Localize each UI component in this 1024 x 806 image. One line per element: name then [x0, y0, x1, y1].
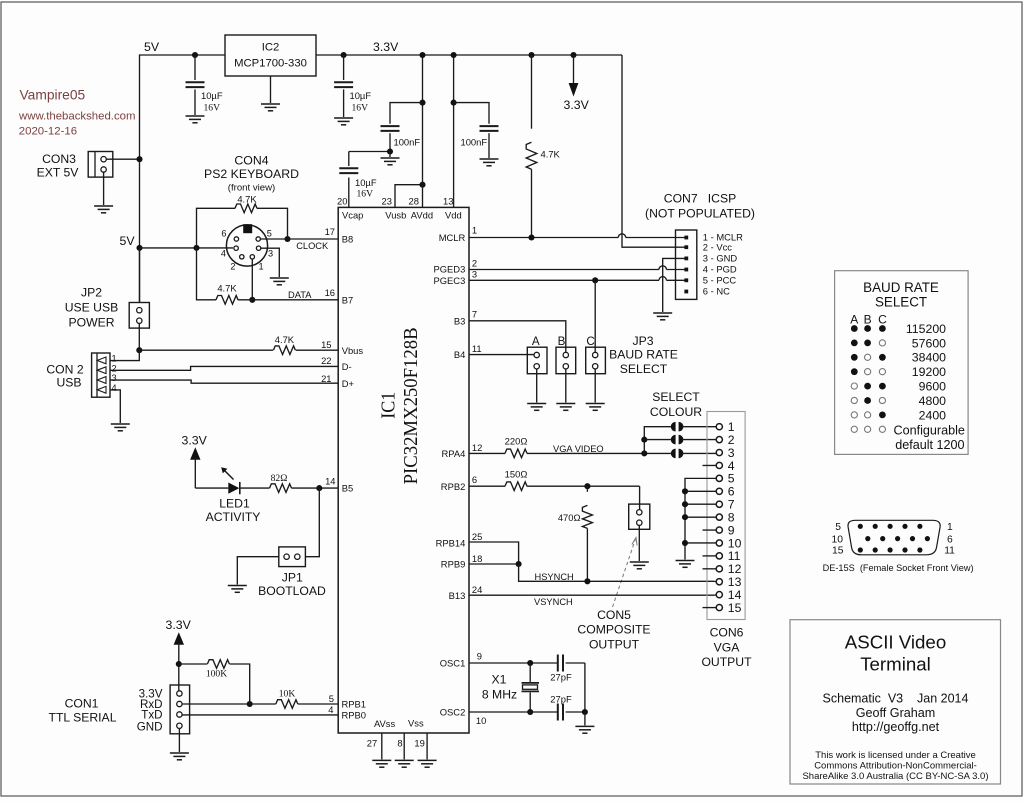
svg-text:PGEC3: PGEC3	[434, 275, 466, 286]
resistor R2 4.7K data pullup	[216, 296, 238, 305]
svg-text:10µF: 10µF	[355, 177, 377, 188]
svg-text:10µF: 10µF	[350, 90, 372, 101]
wire IC2 output to 3.3V rail	[316, 54, 622, 56]
svg-text:RPB9: RPB9	[441, 559, 466, 570]
wire Vbus to resistor	[139, 349, 273, 351]
svg-text:B5: B5	[342, 483, 353, 494]
junction on 5V rail	[192, 52, 198, 58]
wire CON3 pin2 to ground	[103, 172, 105, 205]
jumper C	[586, 347, 606, 374]
svg-text:11: 11	[944, 545, 955, 556]
svg-text:CON7 ICSP: CON7 ICSP	[664, 192, 736, 206]
ground for DIN pin3	[270, 278, 289, 285]
wire OSC2 to cap	[469, 711, 557, 713]
resistor R10 470R	[582, 486, 592, 581]
dashed callout arrow CON5	[613, 538, 638, 608]
svg-text:3.3V: 3.3V	[166, 618, 192, 632]
svg-text:(NOT POPULATED): (NOT POPULATED)	[645, 207, 755, 221]
wire R5 to RxD line	[230, 664, 250, 704]
ground for C2	[334, 118, 353, 125]
CON6 stub pins	[703, 465, 717, 607]
label HSYNCH	[535, 572, 574, 582]
svg-text:4: 4	[221, 249, 226, 259]
ground for CON2	[111, 424, 130, 431]
resistor R1 4.7K clock pullup	[235, 204, 257, 213]
svg-text:2: 2	[472, 258, 477, 269]
svg-text:B7: B7	[342, 294, 353, 305]
solder jumper blue	[671, 449, 684, 459]
svg-text:A: A	[532, 335, 540, 348]
svg-text:10µF: 10µF	[201, 90, 223, 101]
svg-text:4.7K: 4.7K	[275, 334, 295, 345]
svg-text:Schematic V3 Jan 2014: Schematic V3 Jan 2014	[823, 691, 969, 705]
wire LED to resistor	[240, 487, 270, 489]
svg-text:4800: 4800	[919, 394, 947, 408]
junction CLOCK	[284, 236, 290, 242]
svg-text:100K: 100K	[206, 669, 227, 680]
jumper A	[527, 347, 547, 374]
connector CON1 box	[170, 685, 190, 734]
wire RPB9	[469, 563, 519, 565]
DE-15S pin dots	[858, 524, 930, 553]
svg-text:Vdd: Vdd	[445, 209, 462, 220]
connector CON4 PS2 DIN socket	[226, 224, 267, 266]
svg-text:default 1200: default 1200	[895, 438, 964, 452]
table header A B C	[850, 313, 887, 327]
label R7 4.7K	[541, 148, 561, 159]
wire DIN pin3 to ground	[261, 248, 280, 277]
svg-text:16V: 16V	[357, 189, 374, 200]
note Vampire05	[20, 87, 86, 102]
junction video pin3	[641, 450, 647, 456]
svg-text:OUTPUT: OUTPUT	[701, 655, 752, 669]
wire jumper B to ground	[556, 369, 575, 410]
svg-text:OUTPUT: OUTPUT	[589, 637, 640, 651]
svg-text:25: 25	[472, 531, 482, 542]
jumper B	[556, 347, 576, 374]
wire C4 to ground	[389, 152, 391, 158]
wire pullup left branch	[197, 208, 236, 248]
svg-text:HSYNCH: HSYNCH	[535, 572, 574, 582]
title schematic version	[823, 691, 969, 705]
svg-text:Geoff Graham: Geoff Graham	[856, 706, 936, 720]
wire 5V rail to IC2	[140, 55, 226, 302]
pin 13 Vdd line to rail	[443, 55, 462, 220]
svg-text:3.3V: 3.3V	[564, 98, 590, 112]
svg-text:SELECT: SELECT	[652, 390, 700, 404]
wire CON6 pin13 stub	[715, 580, 717, 582]
wire VGA VIDEO line	[527, 452, 671, 454]
svg-text:21: 21	[321, 373, 331, 384]
junction B5 node	[316, 485, 322, 491]
svg-text:4 - PGD: 4 - PGD	[703, 264, 737, 275]
pin 23 Vusb stem	[382, 185, 423, 221]
wire DATA to IC pin16	[238, 299, 338, 301]
wire jumper A to ground	[527, 369, 546, 410]
capacitor C5 100nF Vdd	[454, 103, 499, 158]
svg-text:19: 19	[414, 738, 424, 749]
svg-text:3 - GND: 3 - GND	[703, 253, 738, 264]
wire R1 to CLOCK corner	[257, 208, 288, 236]
svg-text:100nF: 100nF	[461, 137, 488, 148]
svg-text:VGA VIDEO: VGA VIDEO	[553, 444, 604, 454]
svg-text:LED1: LED1	[219, 497, 250, 511]
svg-text:7: 7	[472, 308, 477, 319]
CON7 pin name list	[703, 232, 743, 297]
power arrow 3.3V right	[564, 55, 590, 112]
svg-text:2: 2	[728, 433, 735, 447]
svg-text:6 - NC: 6 - NC	[703, 286, 730, 297]
svg-text:11: 11	[472, 343, 482, 354]
junction 3.3V arrow rail	[570, 52, 576, 58]
table option dots	[851, 325, 886, 432]
baud rate select table box	[835, 271, 969, 455]
ground for C5	[480, 159, 499, 166]
label C4 100nF	[394, 137, 421, 148]
svg-text:4.7K: 4.7K	[541, 148, 561, 159]
junction HSYNCH 470R	[584, 578, 590, 584]
DIN pin number labels	[221, 229, 273, 272]
junction video pin2	[641, 437, 647, 443]
label R5 100K	[206, 669, 227, 680]
label VGA VIDEO	[553, 444, 604, 454]
svg-text:2400: 2400	[919, 408, 947, 422]
svg-text:27: 27	[367, 738, 377, 749]
IC right pin numbers	[472, 225, 486, 727]
wire jumper C to PGEC3	[594, 280, 596, 352]
label CON1 TTL SERIAL	[49, 697, 117, 725]
svg-text:1: 1	[472, 225, 477, 236]
junction caps ground	[582, 709, 588, 715]
pin 20 Vcap stem	[337, 178, 363, 221]
junction 470R top	[584, 483, 590, 489]
label CON5 COMPOSITE OUTPUT	[577, 608, 650, 651]
svg-text:BAUD RATE: BAUD RATE	[863, 280, 939, 295]
wire video branch up to pin1	[644, 427, 671, 454]
label C5 100nF	[461, 137, 488, 148]
wire jumper C to ground	[586, 369, 605, 410]
license text	[802, 750, 988, 782]
svg-text:RPA4: RPA4	[442, 448, 466, 459]
label CON3	[37, 152, 80, 180]
svg-text:C: C	[586, 335, 594, 348]
svg-text:20: 20	[337, 196, 347, 207]
wire video branch pin2	[644, 439, 671, 441]
svg-text:1: 1	[947, 522, 953, 533]
connector CON2 USB	[92, 353, 110, 397]
title author	[856, 706, 936, 720]
junction 4.7K rail	[528, 52, 534, 58]
svg-text:USB: USB	[56, 376, 81, 390]
DE-15S connector outline	[848, 520, 940, 555]
svg-text:DATA: DATA	[288, 290, 312, 300]
power arrow 3.3V CON1	[166, 618, 192, 691]
svg-text:Commons Attribution-NonCommerc: Commons Attribution-NonCommercial-	[814, 761, 977, 772]
svg-text:8 MHz: 8 MHz	[482, 688, 517, 702]
junction 5V node PS2	[136, 245, 142, 251]
wire jumper blue to pin3	[682, 452, 716, 454]
svg-text:2: 2	[230, 261, 235, 271]
svg-text:Terminal: Terminal	[860, 653, 931, 674]
svg-text:13: 13	[443, 196, 453, 207]
ground for CON3	[94, 206, 113, 213]
junction AVdd 100nF	[419, 100, 425, 106]
svg-text:28: 28	[409, 196, 419, 207]
svg-text:PIC32MX250F128B: PIC32MX250F128B	[400, 327, 422, 484]
label R10 470ohm	[558, 512, 581, 523]
wire CON1 GND to ground	[178, 729, 180, 753]
svg-text:D-: D-	[342, 361, 352, 372]
svg-text:9600: 9600	[919, 380, 947, 394]
svg-text:17: 17	[325, 226, 335, 237]
junction RxD	[247, 701, 253, 707]
label CON7 ICSP	[664, 192, 736, 206]
label R3 4.7K	[275, 334, 295, 345]
capacitor C7 27pF bottom	[558, 704, 585, 721]
IC right pin labels	[434, 232, 466, 718]
svg-text:JP2: JP2	[81, 286, 102, 300]
label C7 27pF	[550, 694, 572, 705]
label PIC32MX250F128B rotated	[400, 327, 422, 484]
svg-text:16V: 16V	[352, 103, 369, 114]
wire JP1 to ground	[237, 557, 278, 585]
resistor R4 82ohm	[270, 484, 292, 493]
svg-text:6: 6	[947, 535, 953, 546]
junction RPB9	[516, 561, 522, 567]
IC left pin numbers	[321, 226, 335, 715]
svg-text:MCP1700-330: MCP1700-330	[234, 57, 307, 69]
svg-text:5 - PCC: 5 - PCC	[703, 275, 737, 286]
svg-text:10: 10	[728, 536, 742, 550]
svg-text:USE USB: USE USB	[65, 301, 119, 315]
svg-text:http://geoffg.net: http://geoffg.net	[852, 720, 940, 734]
wire Vcap cap to 100nF junction	[349, 151, 390, 153]
wire DIN pin5 CLOCK to IC pin17	[260, 238, 338, 240]
label 5V at PS2	[120, 234, 136, 248]
microcontroller IC1 PIC32MX250F128B body	[338, 207, 469, 733]
svg-text:CLOCK: CLOCK	[296, 241, 329, 251]
svg-text:This work is licensed under a: This work is licensed under a Creative	[815, 750, 976, 761]
svg-text:POWER: POWER	[68, 315, 114, 329]
ground for C1	[186, 116, 205, 123]
svg-text:D+: D+	[342, 378, 355, 389]
svg-text:B: B	[864, 313, 872, 327]
capacitor C3 10uF Vcap	[339, 152, 377, 200]
svg-text:AVss: AVss	[374, 718, 395, 729]
svg-text:6: 6	[221, 229, 226, 239]
label CON 2 USB	[46, 362, 83, 389]
svg-text:5V: 5V	[144, 40, 160, 54]
ground for CON1	[170, 753, 189, 760]
label R9 150ohm	[505, 468, 528, 479]
junction AVdd-Vusb	[419, 182, 425, 188]
wire B5 to JP1	[305, 488, 319, 557]
svg-text:B: B	[558, 335, 566, 348]
label JP1 BOOTLOAD	[258, 570, 326, 598]
svg-text:27pF: 27pF	[550, 694, 572, 705]
label A	[532, 335, 540, 348]
svg-text:2: 2	[112, 363, 117, 373]
label R2 4.7K	[217, 283, 237, 294]
svg-text:A: A	[850, 313, 858, 327]
svg-text:220Ω: 220Ω	[505, 436, 528, 447]
wire OSC1 to crystal	[469, 662, 557, 664]
svg-text:Vss: Vss	[408, 718, 424, 729]
svg-text:OSC2: OSC2	[440, 707, 466, 718]
connector CON6 VGA box	[707, 412, 745, 620]
node 5V top-left label	[144, 40, 160, 54]
wire 150R to CON5	[527, 485, 640, 487]
note thebackshed url	[18, 111, 136, 123]
wire 5V down to JP2	[139, 248, 141, 303]
label C6 27pF	[550, 672, 572, 683]
label CON4	[234, 154, 268, 168]
ground for crystal caps	[575, 726, 594, 733]
svg-text:12: 12	[472, 442, 482, 453]
junction 100K node	[176, 661, 182, 667]
svg-text:10K: 10K	[279, 689, 296, 700]
junction C2	[341, 52, 347, 58]
svg-text:CON4: CON4	[234, 154, 268, 168]
svg-text:5V: 5V	[120, 234, 136, 248]
label X1 8MHz	[482, 673, 517, 702]
label PS2 KEYBOARD	[204, 167, 299, 181]
label LED1 ACTIVITY	[206, 497, 261, 525]
svg-text:VSYNCH: VSYNCH	[534, 597, 573, 607]
power arrow 3.3V LED supply	[182, 434, 208, 489]
label front view	[228, 182, 275, 193]
svg-text:Configurable: Configurable	[894, 423, 965, 437]
svg-text:X1: X1	[492, 673, 507, 687]
wire JP2 to Vbus junction	[138, 323, 140, 350]
svg-text:SELECT: SELECT	[875, 295, 927, 310]
svg-text:GND: GND	[137, 721, 163, 734]
svg-text:3.3V: 3.3V	[373, 40, 399, 54]
svg-text:8: 8	[728, 510, 735, 524]
svg-text:19200: 19200	[912, 365, 946, 379]
svg-text:B8: B8	[342, 234, 353, 245]
svg-text:8: 8	[397, 738, 402, 749]
svg-text:CON3: CON3	[42, 152, 76, 166]
svg-text:9: 9	[728, 523, 735, 537]
svg-text:1: 1	[728, 420, 735, 434]
svg-text:CON6: CON6	[710, 626, 744, 640]
svg-text:115200: 115200	[906, 322, 946, 336]
svg-text:4: 4	[728, 459, 735, 473]
IC left pin labels	[342, 234, 367, 721]
svg-text:RPB14: RPB14	[436, 537, 466, 548]
svg-text:2020-12-16: 2020-12-16	[19, 125, 77, 137]
junction Vdd 100nF	[451, 100, 457, 106]
wire CON3 pin1 to 5V line	[106, 158, 139, 160]
svg-text:COMPOSITE: COMPOSITE	[577, 623, 650, 637]
capacitor C4 100nF AVdd	[381, 103, 423, 150]
label JP3 BAUD RATE SELECT	[609, 334, 678, 376]
svg-text:10: 10	[832, 535, 844, 546]
wire pullup column down to DATA resistor	[197, 248, 217, 300]
label VSYNCH	[534, 597, 573, 607]
wire PGED3 to CON7 pin4 with hop	[469, 266, 686, 270]
svg-text:16V: 16V	[204, 103, 221, 114]
svg-text:57600: 57600	[912, 336, 946, 350]
svg-text:PS2 KEYBOARD: PS2 KEYBOARD	[204, 167, 299, 181]
wire Vbus node to CON2 pin1	[110, 350, 139, 360]
svg-text:4: 4	[112, 383, 117, 393]
svg-text:IC2: IC2	[262, 42, 280, 54]
wire jumper green to pin2	[682, 439, 716, 441]
svg-text:14: 14	[728, 588, 742, 602]
svg-text:CON5: CON5	[597, 608, 631, 622]
wire CON6 ground chain	[682, 478, 716, 559]
svg-text:3.3V: 3.3V	[182, 434, 208, 448]
svg-text:MCLR: MCLR	[439, 232, 466, 243]
ground for CON7	[653, 313, 672, 320]
resistor R5 100K	[207, 660, 229, 669]
svg-text:150Ω: 150Ω	[505, 468, 528, 479]
wire MCLR from IC to CON7 with hop	[469, 234, 686, 238]
label R1 4.7K	[237, 194, 257, 205]
CON1 pin labels	[137, 688, 163, 734]
svg-text:RPB1: RPB1	[342, 699, 367, 710]
label CLOCK	[296, 241, 329, 251]
label DATA	[288, 290, 312, 300]
svg-text:6: 6	[728, 485, 735, 499]
svg-text:Vcap: Vcap	[342, 209, 363, 220]
svg-text:15: 15	[728, 601, 742, 615]
wire R4 to IC pin14	[292, 487, 339, 489]
wire VSYNCH B13 to pin14	[469, 594, 715, 596]
pin 27 AVss stem and ground	[367, 733, 392, 767]
junction DATA	[249, 297, 255, 303]
resistor R3 4.7K Vbus	[273, 346, 295, 355]
svg-text:TTL SERIAL: TTL SERIAL	[49, 711, 117, 725]
crystal X1 8MHz	[522, 663, 540, 712]
ground pin of IC2	[261, 76, 280, 111]
svg-text:11: 11	[728, 549, 741, 563]
title block box	[790, 620, 1001, 784]
wire CON7 pin3 GND down	[663, 258, 687, 312]
svg-text:SELECT: SELECT	[620, 362, 668, 376]
svg-text:10: 10	[476, 715, 486, 726]
svg-text:(front view): (front view)	[228, 182, 275, 193]
resistor R6 10K	[276, 700, 298, 709]
resistor R7 4.7K MCLR pullup	[526, 55, 537, 238]
svg-text:BOOTLOAD: BOOTLOAD	[258, 584, 326, 598]
svg-text:12: 12	[728, 562, 742, 576]
svg-text:DE-15S (Female Socket Front V: DE-15S (Female Socket Front View)	[823, 563, 974, 573]
svg-text:RPB0: RPB0	[342, 710, 367, 721]
svg-text:3: 3	[472, 269, 477, 280]
svg-text:ShareAlike 3.0 Australia (CC B: ShareAlike 3.0 Australia (CC BY-NC-SA 3.…	[802, 771, 988, 782]
wire B4 to jumper A	[469, 354, 534, 356]
wire CON6 pin14 stub	[715, 594, 717, 597]
svg-text:JP3: JP3	[632, 334, 653, 348]
junction pullup column	[193, 245, 199, 251]
svg-text:Vusb: Vusb	[385, 209, 406, 220]
svg-text:3: 3	[112, 373, 117, 383]
label R8 220ohm	[505, 436, 528, 447]
label C2 10uF 16V	[350, 90, 372, 114]
LED LED1 with cathode bar	[221, 467, 240, 494]
junction CON3 on 5V vertical	[136, 156, 142, 162]
svg-text:470Ω: 470Ω	[558, 512, 581, 523]
svg-text:AVdd: AVdd	[411, 209, 433, 220]
svg-text:CON1: CON1	[65, 697, 99, 711]
svg-text:4.7K: 4.7K	[217, 283, 237, 294]
solder jumper green	[671, 435, 684, 445]
label R4 82ohm	[271, 473, 288, 484]
svg-text:JP1: JP1	[282, 570, 303, 584]
